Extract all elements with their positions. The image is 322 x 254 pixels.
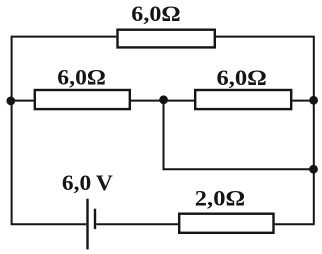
svg-text:2,0Ω: 2,0Ω (195, 185, 245, 210)
svg-text:6,0Ω: 6,0Ω (57, 65, 106, 90)
svg-text:6,0 V: 6,0 V (62, 170, 113, 195)
svg-text:6,0Ω: 6,0Ω (131, 1, 180, 26)
svg-text:6,0Ω: 6,0Ω (217, 65, 267, 90)
